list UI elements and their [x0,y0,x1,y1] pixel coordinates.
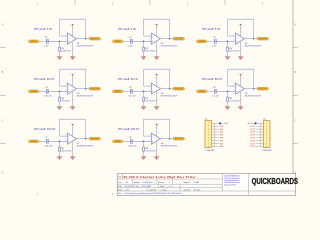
svg-text:HPOUT8: HPOUT8 [175,138,184,140]
svg-text:HPIN2: HPIN2 [115,41,122,43]
svg-text:7: 7 [208,140,209,142]
svg-text:2: 2 [208,126,209,128]
svg-text:8: 8 [208,143,209,145]
svg-text:HPOUT7: HPOUT7 [91,138,100,140]
svg-text:HPIN1: HPIN1 [31,41,38,43]
svg-text:B. Quick: B. Quick [194,189,201,191]
svg-text:HPIN5: HPIN5 [115,91,122,93]
svg-text:D: D [2,172,4,175]
svg-text:158 kOhm: 158 kOhm [61,50,71,52]
svg-text:4: 4 [266,132,267,134]
svg-text:C: C [2,120,4,123]
svg-text:1: 1 [172,186,173,188]
svg-text:3: 3 [266,129,267,131]
svg-text:MCP6V66T-E/OT: MCP6V66T-E/OT [161,146,178,148]
svg-text:MCP6V66T-E/OT: MCP6V66T-E/OT [77,146,94,148]
svg-text:2: 2 [169,182,170,184]
svg-text:(555) 123-4567: (555) 123-4567 [224,184,236,186]
svg-text:C: C [294,120,296,123]
svg-text:11/17/2023: 11/17/2023 [125,186,133,188]
svg-text:16.9 kOhm: 16.9 kOhm [145,150,155,152]
svg-text:0.1 µF: 0.1 µF [212,95,219,97]
svg-text:3: 3 [208,129,209,131]
svg-text:2: 2 [266,126,267,128]
svg-text:09-008-SCH: 09-008-SCH [143,182,153,184]
svg-text:9: 9 [266,146,267,148]
svg-text:OUT4: OUT4 [250,135,256,137]
svg-text:7: 7 [266,140,267,142]
svg-text:QUICKBOARDS: QUICKBOARDS [252,176,299,186]
svg-text:OUT6: OUT6 [250,140,256,142]
svg-text:J. Quick: J. Quick [161,189,167,191]
svg-text:16.9 kOhm: 16.9 kOhm [145,100,155,102]
svg-text:MCP6V66T-E/OT: MCP6V66T-E/OT [77,46,94,48]
svg-text:OUT5: OUT5 [250,138,256,140]
svg-text:9: 9 [208,146,209,148]
svg-text:HPIN7: HPIN7 [31,141,38,143]
svg-text:MCP6V66T-E/OT: MCP6V66T-E/OT [77,96,94,98]
svg-text:1 µF: 1 µF [128,45,133,47]
svg-text:OUT2: OUT2 [250,129,256,131]
svg-text:33.2 kOhm: 33.2 kOhm [229,50,239,52]
svg-text:HPOUT2: HPOUT2 [175,38,184,40]
svg-text:0.047 µF: 0.047 µF [128,145,137,147]
svg-text:OUT7: OUT7 [250,143,256,145]
svg-text:6: 6 [208,138,209,140]
svg-text:OUT1: OUT1 [250,126,256,128]
svg-text:33.2 kOhm: 33.2 kOhm [61,150,71,152]
svg-text:5: 5 [208,135,209,137]
svg-text:MCP6V66T-E/OT: MCP6V66T-E/OT [161,46,178,48]
svg-text:CONN-DB9: CONN-DB9 [205,150,214,152]
svg-text:1 µF: 1 µF [212,45,217,47]
svg-text:HPIN6: HPIN6 [199,91,206,93]
svg-text:31.6 kOhm: 31.6 kOhm [229,100,239,102]
svg-text:MCP6V66T-E/OT: MCP6V66T-E/OT [245,96,262,98]
svg-text:HPOUT5: HPOUT5 [175,88,184,90]
svg-text:5: 5 [266,135,267,137]
svg-text:CONN-DB9: CONN-DB9 [262,150,271,152]
svg-text:80.6 kOhm: 80.6 kOhm [145,50,155,52]
svg-text:HPOUT6: HPOUT6 [259,88,268,90]
svg-text:OUT8: OUT8 [250,146,256,148]
svg-text:09-008 8-Channel Active High P: 09-008 8-Channel Active High Pass Filter [123,175,196,179]
svg-text:0.47 µF: 0.47 µF [44,95,52,97]
svg-text:HPOUT1: HPOUT1 [91,38,100,40]
svg-text:HPIN8: HPIN8 [115,141,122,143]
svg-text:8: 8 [266,143,267,145]
svg-text:6: 6 [266,138,267,140]
svg-text:0.047 µF: 0.047 µF [44,145,53,147]
svg-text:0.47 µF: 0.47 µF [128,95,136,97]
svg-text:OUT3: OUT3 [250,132,256,134]
svg-text:4: 4 [208,132,209,134]
svg-text:1 µF: 1 µF [44,45,49,47]
svg-text:1: 1 [166,186,167,188]
svg-text:34 kOhm: 34 kOhm [61,100,70,102]
svg-text:HPIN3: HPIN3 [199,41,206,43]
svg-text:MCP6V66T-E/OT: MCP6V66T-E/OT [161,96,178,98]
svg-text:HPOUT3: HPOUT3 [259,38,268,40]
svg-text:1: 1 [266,123,267,125]
svg-text:MCP6V66T-E/OT: MCP6V66T-E/OT [245,46,262,48]
svg-text:1 of 1: 1 of 1 [125,189,129,191]
svg-text:1: 1 [208,123,209,125]
